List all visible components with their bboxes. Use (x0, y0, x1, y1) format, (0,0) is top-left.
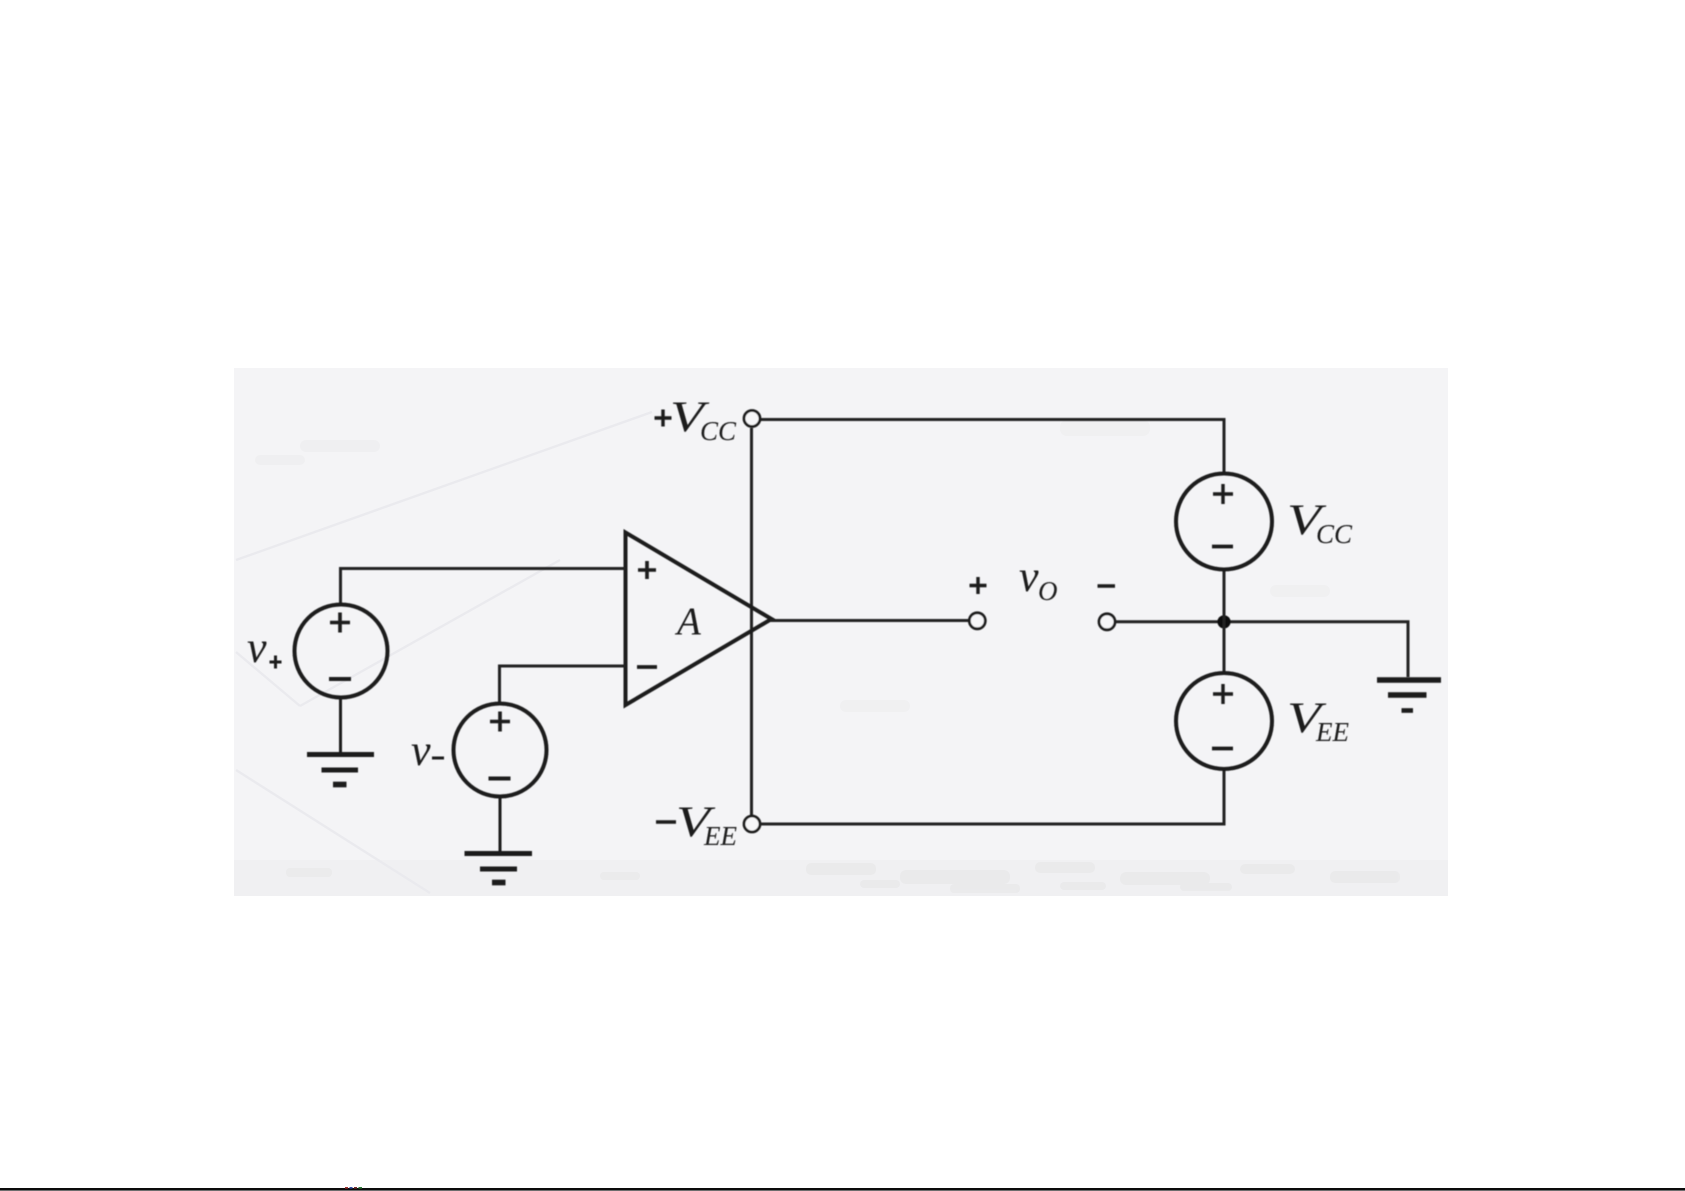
label Vcc (1287, 497, 1353, 549)
op-amp A triangle (626, 533, 772, 706)
label v- (411, 726, 444, 775)
ground (right, output return) (1377, 680, 1441, 711)
source Vcc (1176, 474, 1272, 570)
node junction dot (1217, 615, 1230, 628)
source Vee (1176, 673, 1272, 769)
terminal -Vee (open circle) (744, 816, 760, 832)
svg-text:CC: CC (1316, 519, 1353, 549)
ground below v- (465, 796, 533, 883)
label v+ (247, 623, 282, 672)
label -Vee (656, 799, 737, 851)
wire: -Vee terminal to right then up to Vee source bottom (760, 769, 1224, 824)
svg-text:CC: CC (700, 416, 737, 446)
source v- (454, 704, 547, 797)
bottom page rule (0, 1188, 1685, 1191)
svg-text:EE: EE (1315, 717, 1349, 747)
op-amp + input mark (638, 561, 656, 579)
terminal +Vcc (open circle) (744, 411, 760, 427)
label - (vo) (1098, 584, 1116, 588)
svg-text:v: v (411, 726, 431, 775)
wire: vertical power rail from +Vcc terminal through op-amp to -Vee terminal (750, 428, 753, 815)
wire: op-amp output to + terminal of vo (770, 619, 969, 622)
label +Vcc (655, 394, 738, 446)
source v+ (295, 605, 388, 698)
svg-text:O: O (1038, 576, 1058, 606)
op-amp - input mark (637, 665, 657, 669)
label + (vo) (970, 577, 987, 594)
svg-text:v: v (247, 623, 267, 672)
label Vee (1287, 695, 1349, 747)
terminal vo+ (open circle) (969, 613, 985, 629)
wire: +Vcc terminal to right then down to Vcc source top (760, 420, 1224, 475)
label vo (1019, 552, 1058, 606)
wire: v+ source to + input (341, 569, 626, 606)
terminal vo- (open circle) (1099, 614, 1115, 630)
svg-text:EE: EE (703, 821, 737, 851)
wire: v- source to - input (500, 666, 626, 704)
ground below v+ (307, 697, 374, 785)
scanned figure panel background (234, 368, 1448, 896)
svg-text:A: A (674, 600, 701, 643)
wire: Vcc source bottom to Vee source top (through junction) (1223, 570, 1226, 674)
wire: vo- terminal to right ground (1115, 622, 1408, 677)
svg-text:v: v (1019, 552, 1039, 601)
faint scan crease lines (decorative) (236, 412, 652, 893)
